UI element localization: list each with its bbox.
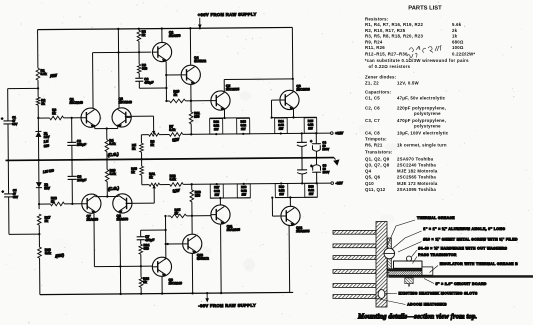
svg-text:+: + [2,190,4,194]
svg-text:5.6k: 5.6k [452,22,462,27]
svg-text:ADCOM HEATSINKS: ADCOM HEATSINKS [407,303,447,307]
svg-text:PASS TRANSISTOR: PASS TRANSISTOR [418,253,456,257]
svg-text:5.6k: 5.6k [41,72,47,76]
svg-text:100: 100 [195,194,201,198]
svg-text:2SA1095 Toshiba: 2SA1095 Toshiba [397,187,436,192]
svg-text:220pF polypropylene,: 220pF polypropylene, [397,106,446,111]
svg-text:47μF, 50v electrolytic: 47μF, 50v electrolytic [397,96,446,101]
svg-text:680: 680 [142,67,148,71]
svg-text:1k: 1k [143,280,147,284]
svg-text:1k: 1k [142,33,146,37]
svg-text:R2, R10, R17, R25: R2, R10, R17, R25 [365,28,406,33]
svg-text:2W: 2W [214,127,219,131]
svg-text:+: + [310,164,312,168]
svg-text:2SC2565: 2SC2565 [296,87,310,91]
svg-text:2SA1095: 2SA1095 [296,229,310,233]
svg-text:100: 100 [194,115,200,119]
svg-text:8" × 2.6" CIRCUIT BOARD: 8" × 2.6" CIRCUIT BOARD [436,282,487,286]
svg-text:2SA970: 2SA970 [116,217,128,221]
svg-text:50V: 50V [12,122,17,126]
svg-text:C1, C5: C1, C5 [365,96,380,101]
svg-text:0.22Ω/2W*: 0.22Ω/2W* [452,52,475,57]
svg-text:680: 680 [143,247,149,251]
svg-text:2k: 2k [174,211,178,215]
svg-text:Resistors:: Resistors: [365,17,389,22]
svg-text:MJE 172 Motorola: MJE 172 Motorola [397,181,438,186]
svg-text:2SA970: 2SA970 [86,218,98,222]
svg-text:50V: 50V [13,195,18,199]
svg-text:100V: 100V [322,147,329,151]
svg-text:100Ω: 100Ω [452,45,464,50]
svg-text:2W: 2W [309,192,314,196]
svg-text:1k: 1k [452,34,458,39]
svg-text:R1, R4, R7, R16, R19, R22: R1, R4, R7, R16, R19, R22 [365,22,423,27]
svg-text:5.6k: 5.6k [45,251,51,255]
svg-text:1k: 1k [132,147,136,151]
svg-text:470pF: 470pF [144,81,153,85]
svg-text:12V, 0.5W: 12V, 0.5W [397,81,420,86]
svg-text:100V: 100V [323,170,330,174]
svg-text:220pF: 220pF [77,178,86,182]
svg-text:5.6k: 5.6k [169,128,175,132]
svg-text:R9, R24: R9, R24 [365,39,383,44]
svg-text:C2, C6: C2, C6 [365,106,380,111]
svg-text:2k: 2k [173,93,177,97]
svg-text:Q4: Q4 [365,169,372,174]
svg-text:MJE 182 Motorola: MJE 182 Motorola [397,169,438,174]
svg-text:1k cermet, single turn: 1k cermet, single turn [397,143,447,148]
svg-text:THERMAL GREASE: THERMAL GREASE [417,216,455,220]
svg-text:2SA970: 2SA970 [169,34,181,38]
svg-text:Q3, Q7, Q8: Q3, Q7, Q8 [365,162,390,167]
svg-text:Z1, Z2: Z1, Z2 [365,81,379,86]
svg-text:2k: 2k [41,102,45,106]
svg-text:EXISTING HEATSINK MOUNTING SLO: EXISTING HEATSINK MOUNTING SLOTS [399,291,478,295]
svg-text:polystyrene: polystyrene [414,111,441,116]
svg-text:R12–R15, R27–R30: R12–R15, R27–R30 [365,52,408,57]
svg-text:INSULATOR WITH THERMAL GREASE: INSULATOR WITH THERMAL GREASE B [440,262,518,266]
svg-text:R11, R26: R11, R26 [365,45,385,50]
svg-text:2SC2240: 2SC2240 [169,281,183,285]
svg-text:2k: 2k [452,28,458,33]
svg-text:R6, R21: R6, R21 [365,143,383,148]
svg-text:MJE182: MJE182 [194,59,206,63]
svg-text:#10 × ⅝" SHEET METAL SCREW WIT: #10 × ⅝" SHEET METAL SCREW WITH ⅛" FILED [423,237,518,241]
svg-text:2SC2240 Toshiba: 2SC2240 Toshiba [397,162,436,167]
svg-text:*can substitute 0.1Ω/3W wirewo: *can substitute 0.1Ω/3W wirewound for pa… [365,58,469,63]
svg-text:2k: 2k [45,219,49,223]
svg-text:R3, R5, R8, R18, R20, R23: R3, R5, R8, R18, R20, R23 [365,34,423,39]
svg-text:1k: 1k [150,143,154,147]
svg-text:2W: 2W [215,193,220,197]
svg-text:2SC2240: 2SC2240 [69,101,83,105]
svg-text:C4, C8: C4, C8 [365,130,380,135]
svg-text:2SA1095: 2SA1095 [227,228,241,232]
svg-text:5.6k: 5.6k [170,177,176,181]
svg-text:+60V FROM RAW SUPPLY: +60V FROM RAW SUPPLY [198,12,257,18]
svg-text:2W: 2W [241,127,246,131]
svg-text:+62V: +62V [335,131,344,135]
svg-text:1k: 1k [149,175,153,179]
svg-text:+: + [310,139,312,143]
svg-text:Zener diodes:: Zener diodes: [365,75,397,80]
svg-text:1k: 1k [51,200,55,204]
svg-text:2SC2240: 2SC2240 [118,100,132,104]
svg-text:470pF: 470pF [145,238,154,242]
svg-text:Q5, Q6: Q5, Q6 [365,175,381,180]
svg-text:220pF: 220pF [77,143,86,147]
svg-text:polystyrene: polystyrene [414,124,441,129]
svg-text:PARTS LIST: PARTS LIST [408,6,442,12]
svg-text:Q1, Q2, Q9: Q1, Q2, Q9 [365,156,390,161]
svg-text:Capacitors:: Capacitors: [365,90,392,95]
svg-text:680Ω: 680Ω [452,39,464,44]
svg-text:2W: 2W [308,126,313,130]
svg-text:of 0.22Ω resistors: of 0.22Ω resistors [369,64,411,69]
svg-text:2SC2565 Toshiba: 2SC2565 Toshiba [397,175,436,180]
svg-text:Trimpots:: Trimpots: [365,136,387,141]
svg-text:Q10: Q10 [365,181,374,186]
svg-text:-60V FROM RAW SUPPLY: -60V FROM RAW SUPPLY [198,303,256,309]
svg-text:12V: 12V [44,186,51,190]
svg-text:1" × 1" × ⅛" ALUMINUM ANGLE, 6: 1" × 1" × ⅛" ALUMINUM ANGLE, 6" LONG [423,227,505,231]
svg-text:5.6k: 5.6k [110,172,116,176]
svg-text:10μF, 100V electrolytic: 10μF, 100V electrolytic [397,130,449,135]
svg-text:MJE172: MJE172 [197,257,209,261]
svg-text:470pF polypropylene,: 470pF polypropylene, [397,118,446,123]
svg-text:2W: 2W [279,127,284,131]
svg-text:#4-40 × ¼" HARDWARE WITH OUT W: #4-40 × ¼" HARDWARE WITH OUT WASHERS [418,246,507,250]
svg-text:+: + [1,117,3,121]
svg-text:Q11, Q12: Q11, Q12 [365,187,386,192]
svg-text:2W: 2W [279,192,284,196]
svg-text:329: 329 [43,144,49,149]
svg-text:2SA970 Toshiba: 2SA970 Toshiba [397,156,434,161]
svg-text:2W: 2W [242,192,247,196]
svg-text:-62V: -62V [335,181,343,185]
svg-text:Mounting details—section view: Mounting details—section view from top. [357,313,477,321]
svg-text:C3, C7: C3, C7 [365,118,380,123]
svg-text:2SC2565: 2SC2565 [226,87,240,91]
svg-text:1k: 1k [131,170,135,174]
svg-text:Transistors:: Transistors: [365,150,393,155]
svg-text:1k: 1k [52,111,56,115]
svg-text:5.6k: 5.6k [109,142,115,146]
